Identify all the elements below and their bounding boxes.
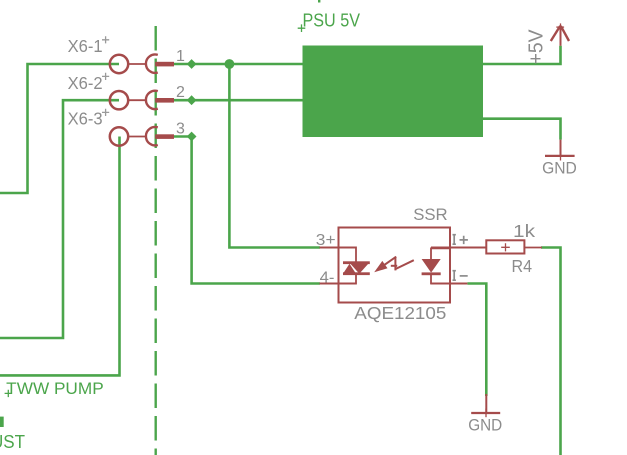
connector pin X6-2	[110, 91, 174, 110]
wire from node at pin3 down to SSR pin 4-	[192, 137, 320, 284]
wire from node at pin1 down to SSR pin 3+	[229, 64, 320, 248]
PSU 5V supply block	[303, 46, 484, 138]
svg-text:+5V: +5V	[525, 29, 547, 65]
dashed sheet divider line	[154, 26, 156, 455]
output diode D2	[422, 248, 449, 285]
wire pin1 to PSU	[173, 63, 303, 66]
svg-text:3: 3	[176, 121, 185, 138]
svg-text:3+: 3+	[316, 232, 336, 249]
wire net N1 from X6-1 to left edge	[0, 64, 119, 193]
wire R4 to bottom edge	[541, 248, 561, 455]
SSR pin 3+ stub	[320, 247, 357, 249]
connector pin X6-1	[110, 55, 174, 74]
wire PSU to +5V symbol	[483, 46, 561, 64]
input LED D1 (back-to-back)	[343, 247, 370, 285]
pin name I-	[453, 271, 468, 281]
wire stub at top edge	[318, 0, 320, 3]
junction dot pin1 end	[187, 59, 197, 69]
svg-text:TWW PUMP: TWW PUMP	[6, 379, 104, 398]
junction dot pin2 end	[187, 95, 197, 105]
resistor R4	[486, 240, 542, 253]
partial green block at left edge	[0, 417, 4, 427]
origin cross X6-1	[102, 36, 109, 43]
light arrow 2	[391, 257, 414, 271]
junction dot pin3 end	[187, 132, 197, 142]
op-to SSR optocoupler U1 box	[339, 228, 451, 303]
wire pin2 to PSU	[173, 99, 303, 102]
origin cross X6-3	[102, 109, 109, 116]
svg-text:AQE12105: AQE12105	[354, 303, 446, 323]
svg-text:X6-1: X6-1	[68, 36, 103, 56]
wire PSU to upper GND	[483, 119, 561, 140]
wire net N2 from X6-2 to left edge	[0, 100, 119, 338]
svg-text:R4: R4	[512, 256, 533, 276]
SSR pin 4- stub	[320, 283, 357, 285]
svg-text:4-: 4-	[320, 269, 335, 286]
svg-text:1k: 1k	[513, 221, 535, 241]
+5V supply symbol	[551, 23, 569, 45]
light arrow 1	[374, 257, 396, 273]
svg-text:UST: UST	[0, 431, 25, 452]
svg-text:PSU 5V: PSU 5V	[303, 9, 361, 30]
lower ground symbol GND	[471, 394, 500, 417]
origin cross PSU	[298, 24, 306, 32]
origin cross X6-2	[102, 73, 109, 80]
svg-text:2: 2	[176, 84, 185, 101]
svg-text:GND: GND	[468, 417, 502, 435]
SSR pin I+ stub	[431, 247, 486, 249]
svg-text:GND: GND	[542, 159, 577, 177]
wire SSR I- to lower GND	[467, 284, 486, 397]
origin cross TWW PUMP	[5, 390, 12, 397]
svg-text:SSR: SSR	[413, 205, 448, 224]
wire pin3 stub	[173, 135, 192, 138]
upper ground symbol GND	[545, 140, 575, 161]
pin name I+	[453, 235, 468, 245]
svg-text:X6-2: X6-2	[68, 73, 103, 93]
svg-text:X6-3: X6-3	[68, 109, 103, 129]
SSR pin I- stub	[431, 283, 467, 285]
connector pin X6-3	[110, 127, 174, 146]
junction dot branch to SSR	[225, 59, 235, 69]
svg-text:1: 1	[176, 48, 185, 65]
wire net TWW PUMP from X6-3 down to left edge	[0, 137, 120, 376]
